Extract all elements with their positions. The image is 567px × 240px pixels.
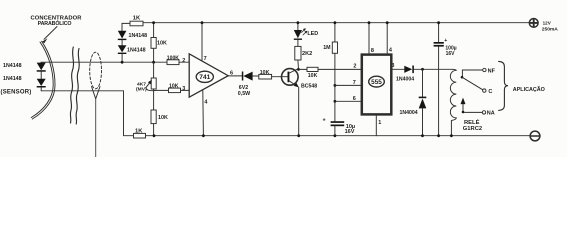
pin 7 wire bbox=[335, 84, 362, 86]
resistor 10K vertical top bbox=[151, 38, 156, 49]
svg-text:7: 7 bbox=[204, 56, 207, 62]
diode D5 1N4004 series bbox=[404, 66, 412, 73]
svg-text:1: 1 bbox=[378, 120, 381, 126]
pin 4 wire bbox=[386, 23, 388, 55]
svg-text:1N4148: 1N4148 bbox=[129, 33, 148, 39]
svg-text:10K: 10K bbox=[157, 40, 167, 46]
svg-text:1M: 1M bbox=[323, 45, 331, 51]
node flyback bottom rail junction bbox=[421, 134, 424, 137]
svg-text:3: 3 bbox=[182, 86, 185, 92]
resistor 100K bbox=[167, 60, 179, 65]
resistor 2K2 bbox=[295, 46, 301, 60]
cable squiggle 2 bbox=[76, 49, 79, 125]
svg-text:(SENSOR): (SENSOR) bbox=[1, 89, 32, 95]
shield V bbox=[92, 87, 101, 99]
photodiode D2 1N4148 sensor bbox=[37, 79, 46, 86]
svg-text:250mA: 250mA bbox=[542, 26, 559, 32]
photodiode D1 1N4148 sensor bbox=[40, 61, 42, 63]
resistor 10K to pin 2 of 555 bbox=[307, 67, 318, 71]
svg-text:+: + bbox=[444, 38, 447, 44]
parabolic dish bbox=[31, 42, 53, 118]
svg-text:PARABÓLICO: PARABÓLICO bbox=[38, 19, 72, 27]
label 12V 250mA bbox=[542, 21, 559, 33]
svg-text:6: 6 bbox=[353, 96, 356, 102]
collector bbox=[289, 69, 298, 73]
svg-text:10K: 10K bbox=[260, 70, 270, 76]
pot wiper arrow bbox=[146, 82, 151, 88]
LED emission arrows bbox=[302, 29, 305, 32]
shield drain wire bbox=[95, 99, 97, 157]
svg-text:4K7: 4K7 bbox=[137, 81, 146, 87]
node emitter bottom rail junction bbox=[297, 134, 300, 137]
IC U2 555 bbox=[362, 55, 392, 115]
svg-text:12V: 12V bbox=[543, 21, 552, 26]
terminal +12V bbox=[529, 19, 538, 28]
svg-text:2K2: 2K2 bbox=[302, 51, 312, 57]
node collector junction bbox=[297, 68, 300, 71]
node bottom rail left junction bbox=[153, 134, 156, 137]
wire pot chain bbox=[153, 62, 155, 78]
node cap bottom rail junction bbox=[334, 134, 337, 137]
svg-text:NA: NA bbox=[487, 111, 495, 117]
svg-text:(MV): (MV) bbox=[136, 87, 147, 93]
pin 3 wire bbox=[391, 68, 404, 70]
node pin 7 junction bbox=[334, 84, 337, 87]
wire bottom rail bbox=[146, 135, 530, 137]
node pin4 rail junction bbox=[386, 21, 389, 24]
node top rail junction bbox=[152, 21, 155, 24]
svg-text:741: 741 bbox=[199, 74, 210, 81]
diode D4 1N4148 bbox=[118, 45, 127, 52]
svg-text:G1RC2: G1RC2 bbox=[463, 126, 482, 132]
svg-text:10K: 10K bbox=[308, 73, 318, 79]
brace aplicacao bbox=[499, 61, 508, 110]
pin 8 wire bbox=[368, 23, 370, 55]
svg-text:C: C bbox=[488, 89, 492, 95]
pin 6 wire bbox=[335, 100, 362, 102]
svg-text:1N4148: 1N4148 bbox=[3, 76, 22, 82]
shielded-cable ellipse bbox=[90, 52, 102, 89]
resistor 10K to pin 3 bbox=[169, 88, 181, 93]
svg-text:RELÉ: RELÉ bbox=[464, 118, 480, 126]
svg-text:2: 2 bbox=[353, 63, 356, 69]
svg-text:8: 8 bbox=[371, 48, 374, 54]
relay contact NA bbox=[482, 111, 485, 114]
svg-text:NF: NF bbox=[488, 68, 496, 74]
svg-text:1N4148: 1N4148 bbox=[127, 47, 146, 53]
terminal negative bbox=[530, 131, 540, 141]
capacitor C1 10µ 16V bbox=[331, 121, 345, 123]
op-amp U1 741 bbox=[189, 54, 228, 97]
svg-text:16V: 16V bbox=[446, 51, 456, 57]
wire 10K chain vertical bbox=[153, 23, 155, 38]
node pin 6 junction bbox=[334, 100, 337, 103]
resistor 10K after zener bbox=[259, 74, 272, 79]
node pin8 rail junction bbox=[368, 21, 371, 24]
svg-text:555: 555 bbox=[371, 79, 382, 86]
svg-text:LED: LED bbox=[307, 31, 318, 37]
svg-text:16V: 16V bbox=[345, 129, 355, 135]
node sensor wire junction bbox=[152, 61, 155, 64]
wire wiper to 10K bbox=[146, 88, 169, 91]
node 1M rail junction bbox=[334, 21, 337, 24]
wire collector to 555 pin 2 bbox=[299, 68, 308, 70]
svg-text:7: 7 bbox=[353, 80, 356, 86]
node cap rail junctions bbox=[437, 21, 440, 24]
pin 6 wire bbox=[228, 75, 242, 77]
node pin4 bottom rail junction bbox=[202, 134, 205, 137]
emitter bbox=[289, 81, 298, 87]
pin 7 wire bbox=[201, 23, 203, 61]
svg-text:10K: 10K bbox=[169, 83, 179, 89]
svg-text:1N4004: 1N4004 bbox=[396, 76, 414, 82]
diode D6 1N4004 flyback bbox=[422, 69, 424, 96]
LED indicator bbox=[297, 23, 299, 30]
label 4K7 (MV) bbox=[136, 81, 147, 92]
capacitor C2 100µ 16V bbox=[438, 23, 440, 42]
svg-text:6: 6 bbox=[230, 70, 233, 76]
label CONCENTRADOR PARABOLICO bbox=[30, 16, 82, 27]
diode D3 1N4148 bbox=[118, 31, 127, 39]
node coil bottom rail junction bbox=[450, 134, 453, 137]
resistor 1K bottom bbox=[134, 133, 146, 138]
transistor Q1 BC548 bbox=[282, 69, 299, 86]
svg-text:BC548: BC548 bbox=[301, 83, 317, 89]
svg-text:APLICAÇÃO: APLICAÇÃO bbox=[513, 86, 545, 93]
leader arrow to dish bbox=[44, 27, 57, 40]
wire upper sensor line bbox=[41, 61, 167, 63]
svg-text:+: + bbox=[323, 118, 326, 124]
node junction diode chain on sensor wire bbox=[121, 61, 124, 64]
svg-text:10K: 10K bbox=[158, 115, 168, 121]
svg-text:3: 3 bbox=[391, 63, 394, 69]
svg-text:100K: 100K bbox=[167, 55, 179, 61]
svg-text:1N4004: 1N4004 bbox=[400, 110, 418, 116]
pin 4 wire bbox=[202, 90, 205, 136]
label 10µ 16V bbox=[345, 124, 355, 135]
relay contact NF bbox=[462, 69, 482, 71]
label 100µ 16V bbox=[445, 45, 456, 57]
resistor R 1K top bbox=[130, 21, 143, 26]
svg-text:0,5W: 0,5W bbox=[238, 91, 250, 97]
svg-text:1N4148: 1N4148 bbox=[3, 63, 22, 69]
label RELE G1RC2 bbox=[463, 118, 482, 132]
svg-text:1K: 1K bbox=[133, 15, 141, 21]
node pin7 rail junction bbox=[201, 21, 204, 24]
potentiometer 4K7 (MV) bbox=[151, 78, 156, 89]
relay armature to C bbox=[462, 77, 483, 90]
svg-text:2: 2 bbox=[182, 58, 185, 64]
zener diode 6V2 0,5W bbox=[242, 72, 244, 81]
node flyback junction bbox=[421, 68, 424, 71]
node LED rail junction bbox=[297, 21, 300, 24]
cable squiggle 1 bbox=[70, 47, 73, 123]
resistor 10K vertical lower bbox=[151, 110, 156, 124]
relay coil bbox=[450, 69, 456, 135]
resistor 1M bbox=[334, 23, 336, 42]
wire lower sensor line bbox=[41, 91, 133, 136]
wire top rail bbox=[122, 23, 130, 31]
pin 1 wire bbox=[375, 114, 377, 135]
svg-text:1K: 1K bbox=[135, 128, 143, 134]
